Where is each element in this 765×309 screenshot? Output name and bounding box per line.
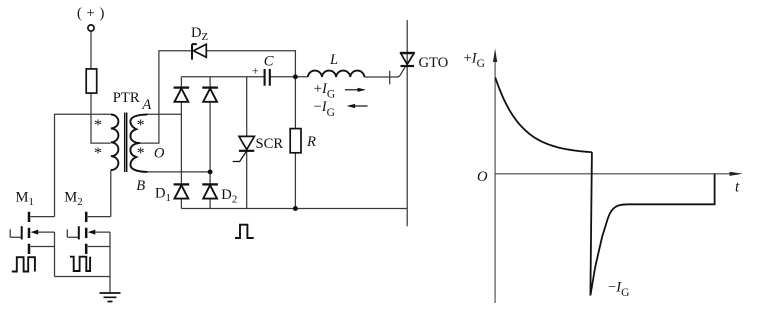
svg-text:−IG: −IG [608,279,629,299]
svg-text:): ) [100,5,105,21]
svg-text:+: + [87,5,95,21]
svg-text:+IG: +IG [314,81,335,101]
svg-text:*: * [94,145,102,162]
svg-text:DZ: DZ [191,25,208,43]
svg-text:L: L [329,52,338,68]
svg-text:M2: M2 [64,190,82,208]
svg-text:*: * [137,117,145,134]
svg-text:*: * [137,145,145,162]
svg-text:SCR: SCR [256,136,284,152]
svg-text:+: + [252,66,259,78]
svg-text:O: O [154,146,165,162]
svg-text:D2: D2 [221,187,237,205]
svg-text:D1: D1 [155,186,171,204]
svg-text:+IG: +IG [464,51,485,71]
svg-text:A: A [141,97,151,113]
svg-text:PTR: PTR [113,90,140,106]
svg-text:*: * [94,117,102,134]
svg-text:B: B [136,178,145,194]
svg-text:t: t [735,178,740,195]
svg-text:C: C [264,54,274,70]
svg-text:(: ( [77,5,82,21]
svg-text:M1: M1 [16,190,34,208]
svg-text:−IG: −IG [314,99,335,119]
svg-text:R: R [306,134,316,150]
svg-text:GTO: GTO [419,55,449,71]
svg-text:O: O [477,169,488,185]
